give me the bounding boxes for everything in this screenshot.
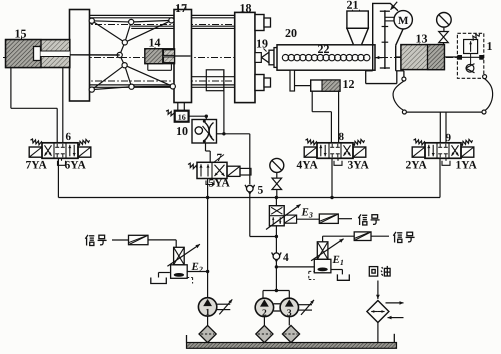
- tie bar upper: [82, 15, 262, 28]
- tie bar lower: [82, 77, 262, 88]
- shutoff valve middle: [272, 178, 282, 197]
- wire pump1 suction: [207, 316, 209, 325]
- relief valve in unit 1: [464, 34, 480, 54]
- flex hose right: [482, 75, 493, 114]
- wire valve10 right port: [217, 132, 226, 135]
- wire pump3 suction: [288, 317, 290, 326]
- pump 1: [198, 298, 216, 318]
- proportional relief E1: [311, 239, 344, 273]
- signal box (E3): [319, 214, 338, 223]
- pump 3 shaft: [299, 300, 315, 315]
- valve 10 (prefill): [192, 120, 217, 144]
- pressure gauge (middle): [270, 158, 284, 178]
- svg-text:17: 17: [175, 1, 187, 15]
- tie bar nut lower: [255, 75, 271, 91]
- label 12: [342, 77, 354, 91]
- svg-text:16: 16: [178, 113, 186, 122]
- hose manifold wire: [406, 111, 482, 113]
- ejection cylinder 14: [145, 49, 175, 64]
- gearbox frame: [366, 3, 404, 83]
- label 14: [148, 36, 160, 50]
- wire valve7 P down to pump 1: [207, 179, 209, 298]
- signal box (E2): [129, 235, 149, 244]
- signal box (E1): [354, 232, 371, 241]
- svg-text:2YA: 2YA: [405, 160, 427, 172]
- label 20: [285, 26, 297, 40]
- text 回油: [369, 266, 390, 276]
- E1 tank symbol: [337, 274, 349, 280]
- pump 2: [255, 298, 273, 318]
- injection cylinder 12 rod wire: [295, 85, 311, 87]
- motor M: [394, 11, 412, 29]
- check valve in unit 1: [466, 54, 475, 73]
- wire E3 to signal box: [297, 218, 320, 220]
- wire valve16 legs: [178, 103, 185, 111]
- label 7YA: [25, 160, 47, 172]
- filter 3: [282, 325, 299, 342]
- cylinder14 bracket wire: [148, 64, 172, 71]
- wire cylinder15 left port to valve6 A: [11, 68, 57, 143]
- svg-text:1: 1: [486, 39, 492, 53]
- wire valve10 bottom to valve7: [206, 143, 211, 162]
- E2 signal wire: [148, 240, 176, 247]
- label 1: [486, 39, 492, 53]
- label 6: [65, 131, 71, 143]
- svg-text:7YA: 7YA: [25, 160, 47, 172]
- filter 1: [199, 325, 216, 342]
- E2 pilot dashes: [187, 278, 193, 284]
- wire check4 node: [275, 261, 278, 292]
- E1 pilot dashes: [309, 271, 315, 279]
- wire valve9 ports up: [440, 112, 446, 143]
- gear shaft: [380, 10, 394, 69]
- svg-text:5: 5: [257, 185, 263, 197]
- E2 tank symbol: [151, 278, 167, 284]
- nozzle 19: [255, 48, 278, 68]
- wire cylinder15 right port to valve6 B: [62, 68, 64, 143]
- wire node to E1: [276, 266, 314, 268]
- E1 drain wire: [331, 270, 343, 275]
- wire valve10 top port: [205, 116, 207, 119]
- valve 8 (3-pos solenoid): [304, 139, 366, 158]
- label 5: [257, 185, 263, 197]
- label 17: [175, 1, 187, 15]
- wire signal E3: [338, 218, 352, 220]
- motor arrow: [391, 2, 398, 10]
- proportional relief E2: [167, 244, 202, 278]
- svg-text:5YA: 5YA: [208, 178, 230, 190]
- label 8: [338, 131, 344, 143]
- wire E3 down to check4: [275, 226, 277, 253]
- valve 9 (3-pos solenoid): [412, 139, 474, 158]
- E1 signal wire: [323, 236, 355, 242]
- label 6YA: [64, 160, 86, 172]
- label 5YA: [208, 178, 230, 190]
- barrel 20: [277, 45, 375, 70]
- return filter: [367, 301, 389, 323]
- mold block: [206, 70, 224, 91]
- label 9: [445, 132, 451, 144]
- return filter out arrow: [386, 301, 404, 305]
- svg-text:8: 8: [338, 131, 344, 143]
- unit 1 enclosure: [457, 33, 483, 78]
- main pressure wire: [58, 196, 440, 199]
- oil tank: [187, 334, 397, 349]
- wire return filter to tank: [377, 323, 379, 343]
- piston rod wire: [70, 54, 120, 56]
- pump 1 shaft: [217, 299, 233, 314]
- fixed platen 18: [235, 12, 255, 102]
- flex hose left: [393, 77, 406, 114]
- svg-text:18: 18: [239, 1, 251, 15]
- pressure gauge (top right): [437, 12, 452, 31]
- toggle linkage with pin joints: [89, 18, 175, 92]
- label 19: [256, 37, 268, 52]
- tie bar nut upper: [255, 15, 271, 31]
- check valve 5: [245, 185, 255, 194]
- pump 3: [280, 298, 298, 318]
- wire pumps23 manifold: [263, 291, 289, 299]
- return filter in arrow: [388, 316, 404, 320]
- label 4: [283, 252, 289, 264]
- label 1YA: [455, 160, 477, 172]
- wire valve6 P down: [57, 158, 59, 197]
- unit 1 ports: [457, 55, 483, 60]
- label 7: [214, 152, 225, 164]
- label 21: [346, 0, 359, 12]
- cylinder14 rod wire: [175, 55, 191, 57]
- wire pump2 suction: [263, 317, 265, 326]
- wire valve8 ports up: [312, 91, 338, 143]
- injection cylinder 12: [311, 80, 340, 91]
- label E3: [300, 206, 312, 219]
- return wire with arrow: [376, 281, 380, 300]
- valve 9 drain: [442, 159, 450, 166]
- svg-text:19: 19: [256, 37, 268, 51]
- E2 drain wire: [159, 273, 170, 278]
- check valve 4: [272, 252, 282, 261]
- svg-text:6YA: 6YA: [64, 160, 86, 172]
- svg-text:12: 12: [342, 77, 354, 91]
- wire signal E2: [112, 239, 129, 241]
- moving platen 17: [174, 6, 192, 103]
- label 2YA: [405, 160, 427, 172]
- wire valve8 P down: [331, 158, 333, 197]
- label 13: [415, 32, 427, 46]
- svg-text:13: 13: [415, 32, 427, 46]
- screw 22: [282, 54, 382, 60]
- label 10: [176, 124, 188, 138]
- cylinder13 rod wire: [444, 56, 457, 58]
- svg-text:22: 22: [317, 42, 329, 56]
- valve 16: [166, 110, 189, 122]
- valve 6 (3-pos solenoid): [29, 139, 91, 158]
- text 信号 (E3): [358, 214, 379, 225]
- pump coupling: [274, 304, 281, 311]
- label 15: [14, 27, 26, 41]
- wire signal E1: [371, 235, 389, 237]
- wire valve16 to valve10 node: [189, 115, 208, 118]
- text 信号 (E2): [85, 235, 106, 246]
- label 4YA: [296, 160, 318, 172]
- svg-text:3YA: 3YA: [347, 160, 369, 172]
- valve 7 (2-pos solenoid): [188, 162, 251, 178]
- svg-text:4YA: 4YA: [296, 160, 318, 172]
- valve 8 drain: [334, 159, 342, 166]
- carriage cylinder 13: [396, 45, 444, 70]
- wire check5 to E3 branch: [250, 193, 278, 238]
- svg-text:M: M: [398, 15, 409, 27]
- svg-text:20: 20: [285, 26, 297, 40]
- label 18: [239, 1, 251, 15]
- proportional valve E3: [266, 198, 301, 230]
- rear platen: [70, 10, 90, 102]
- svg-text:4: 4: [283, 252, 289, 264]
- svg-text:10: 10: [176, 124, 188, 138]
- valve 7 drain: [206, 179, 214, 185]
- svg-text:6: 6: [65, 131, 71, 143]
- label 22: [317, 42, 329, 56]
- filter 2: [256, 325, 273, 342]
- barrel support leg: [290, 70, 295, 91]
- valve 6 drain: [58, 159, 66, 166]
- machine center axis (dash-dot): [3, 57, 457, 59]
- label 3YA: [347, 160, 369, 172]
- wire valve9 P down: [439, 158, 441, 197]
- wire E2 to pump1 line: [187, 270, 210, 273]
- clamp cylinder 15: [6, 40, 70, 68]
- wire mold line down: [223, 71, 225, 134]
- wire node to check5: [224, 134, 250, 184]
- svg-text:15: 15: [14, 27, 26, 41]
- text 信号 (E1): [393, 232, 414, 243]
- hopper 21: [347, 11, 368, 45]
- shutoff valve under gauge: [439, 32, 449, 45]
- svg-text:1YA: 1YA: [455, 160, 477, 172]
